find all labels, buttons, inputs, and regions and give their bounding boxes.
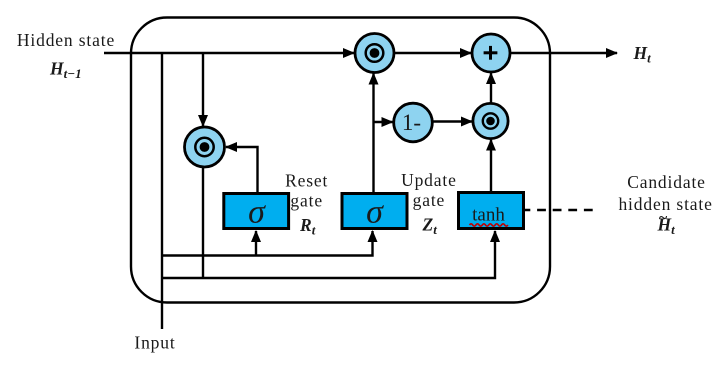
svg-text:1-: 1- — [402, 110, 421, 135]
svg-text:~: ~ — [659, 210, 668, 227]
svg-text:Ht: Ht — [633, 43, 652, 66]
svg-text:Reset: Reset — [285, 171, 328, 191]
svg-text:gate: gate — [290, 191, 323, 211]
svg-text:σ: σ — [248, 194, 266, 231]
svg-text:gate: gate — [413, 190, 446, 210]
svg-text:Rt: Rt — [299, 215, 316, 238]
svg-text:Hidden state: Hidden state — [17, 30, 115, 50]
svg-text:Candidate: Candidate — [627, 172, 706, 192]
svg-text:σ: σ — [366, 194, 384, 231]
svg-text:Ht−1: Ht−1 — [49, 59, 82, 82]
svg-text:Zt: Zt — [422, 215, 438, 238]
svg-text:Input: Input — [134, 333, 175, 353]
svg-text:tanh: tanh — [472, 205, 505, 226]
svg-text:Update: Update — [401, 170, 457, 190]
